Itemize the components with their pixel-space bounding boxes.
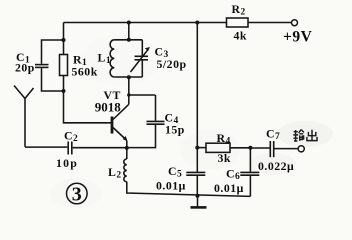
svg-text:15p: 15p [165,123,185,137]
svg-text:10p: 10p [56,156,78,170]
svg-text:5/20p: 5/20p [157,57,187,71]
svg-text:9018: 9018 [95,100,122,115]
svg-text:C7: C7 [266,127,280,143]
svg-text:0.01μ: 0.01μ [156,179,186,193]
svg-text:L2: L2 [108,165,122,181]
svg-text:3: 3 [72,183,83,205]
svg-text:C5: C5 [168,164,182,180]
svg-text:3k: 3k [218,151,231,165]
svg-text:C6: C6 [226,167,240,183]
svg-text:0.01μ: 0.01μ [214,181,244,195]
svg-text:R4: R4 [217,131,231,147]
svg-text:C2: C2 [64,129,78,145]
svg-text:4k: 4k [234,29,247,43]
svg-text:+9V: +9V [283,28,313,45]
svg-text:560k: 560k [72,65,98,79]
svg-text:0.022μ: 0.022μ [258,159,294,173]
svg-text:20p: 20p [15,60,35,74]
svg-text:R2: R2 [232,2,246,17]
